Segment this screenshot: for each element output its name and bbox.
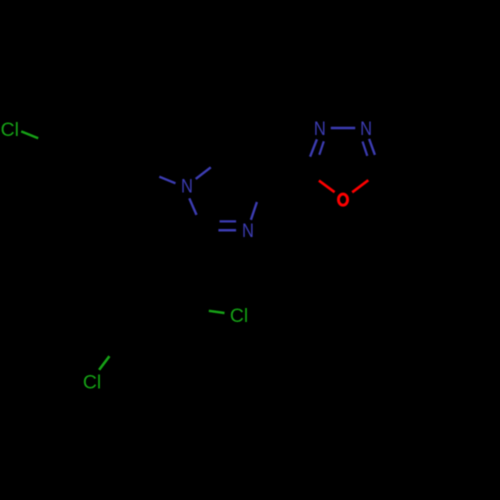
svg-text:N: N	[181, 175, 193, 197]
svg-text:N: N	[242, 220, 254, 242]
svg-text:N: N	[314, 118, 326, 140]
svg-text:Cl: Cl	[83, 372, 101, 394]
svg-text:N: N	[360, 118, 372, 140]
svg-text:Cl: Cl	[230, 305, 248, 327]
svg-text:Cl: Cl	[1, 119, 19, 141]
